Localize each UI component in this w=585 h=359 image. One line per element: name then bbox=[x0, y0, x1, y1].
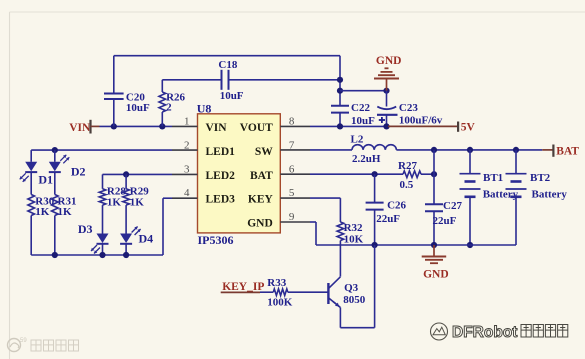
node BT1 top junction bbox=[467, 147, 473, 153]
port 5V bbox=[458, 122, 475, 134]
wire 5V red segment bbox=[388, 125, 458, 127]
node C23 bottom junction bbox=[383, 123, 389, 129]
LED D1 bbox=[20, 150, 53, 194]
wire LED2 net bbox=[103, 173, 173, 175]
svg-text:10uF: 10uF bbox=[220, 90, 244, 102]
svg-text:10uF: 10uF bbox=[351, 115, 375, 127]
svg-text:1K: 1K bbox=[58, 206, 73, 218]
wire VOUT net bbox=[310, 125, 388, 127]
svg-text:R32: R32 bbox=[344, 222, 363, 234]
wire C20-top to C22-top bbox=[114, 55, 340, 57]
svg-text:1K: 1K bbox=[130, 197, 145, 209]
svg-text:KEY: KEY bbox=[248, 194, 274, 206]
svg-text:59: 59 bbox=[20, 338, 27, 344]
node C22 bottom junction bbox=[337, 123, 343, 129]
svg-text:1K: 1K bbox=[107, 197, 122, 209]
node BAT-R27 junction bbox=[431, 147, 437, 153]
resistor R30 bbox=[28, 195, 55, 256]
capacitor C20 bbox=[104, 56, 150, 127]
wire LED1 net bbox=[31, 149, 172, 151]
svg-text:C26: C26 bbox=[387, 200, 406, 212]
svg-text:GND: GND bbox=[247, 218, 273, 230]
svg-text:2: 2 bbox=[166, 102, 172, 114]
wire GND pin9 bbox=[310, 222, 316, 245]
wire GND tie bbox=[340, 90, 387, 92]
svg-text:22uF: 22uF bbox=[376, 213, 400, 225]
svg-text:R29: R29 bbox=[130, 185, 149, 197]
svg-text:L2: L2 bbox=[351, 134, 364, 146]
svg-text:KEY_IP: KEY_IP bbox=[222, 281, 264, 293]
wire GND vertical x340 bbox=[339, 56, 341, 106]
svg-text:22uF: 22uF bbox=[433, 215, 457, 227]
node C26-emitter junction bbox=[372, 242, 378, 248]
capacitor C18 bbox=[218, 59, 243, 102]
svg-text:VIN: VIN bbox=[206, 122, 228, 134]
svg-text:GND: GND bbox=[376, 55, 402, 67]
svg-text:D1: D1 bbox=[38, 172, 53, 186]
wire LED3 bottom rail bbox=[31, 254, 163, 256]
svg-text:2.2uH: 2.2uH bbox=[352, 153, 381, 165]
transistor Q3 bbox=[328, 277, 365, 308]
svg-text:R33: R33 bbox=[267, 277, 286, 289]
wire R26-top to C18 bbox=[162, 79, 221, 81]
svg-text:1K: 1K bbox=[35, 206, 50, 218]
wire Q3 emitter return bbox=[340, 245, 374, 328]
battery BT2 bbox=[506, 150, 568, 245]
op-amp U8 IP5306 body bbox=[197, 101, 281, 247]
svg-text:D2: D2 bbox=[71, 165, 86, 179]
capacitor C26 bbox=[366, 174, 407, 245]
svg-text:DFRobot: DFRobot bbox=[452, 324, 517, 341]
node GND-tie junction bbox=[337, 88, 343, 94]
svg-text:VOUT: VOUT bbox=[240, 122, 273, 134]
port VIN bbox=[69, 120, 99, 134]
port BAT bbox=[542, 145, 579, 158]
wire R32 to Q3 collector bbox=[339, 241, 341, 277]
node VIN-R26 junction bbox=[159, 123, 165, 129]
resistor R26 bbox=[159, 80, 186, 127]
U8 pin numbers bbox=[184, 116, 295, 224]
wire BAT sense bbox=[310, 173, 403, 175]
svg-text:BAT: BAT bbox=[250, 170, 273, 182]
wire SW to L2 bbox=[310, 149, 352, 151]
resistor R33 bbox=[267, 277, 293, 309]
wire L2 to BAT rail bbox=[396, 149, 434, 151]
node C26 top junction bbox=[372, 171, 378, 177]
resistor R28 bbox=[99, 174, 126, 233]
svg-text:LED1: LED1 bbox=[206, 146, 236, 158]
wire VIN net bbox=[100, 125, 173, 127]
node D2 bottom junction bbox=[52, 252, 58, 258]
svg-text:R27: R27 bbox=[398, 160, 417, 172]
svg-text:C27: C27 bbox=[443, 200, 462, 212]
node C18 junction bbox=[337, 77, 343, 83]
LED D2 bbox=[49, 150, 86, 194]
resistor R27 bbox=[398, 160, 421, 191]
wire R27 to vert bbox=[421, 173, 434, 175]
wire LED3 riser bbox=[163, 198, 172, 255]
node C27-GND junction bbox=[431, 242, 437, 248]
svg-text:8050: 8050 bbox=[343, 294, 366, 306]
node D4 bottom junction bbox=[123, 252, 129, 258]
svg-text:SW: SW bbox=[255, 146, 273, 158]
wire KEY net bbox=[310, 198, 340, 222]
svg-text:Battery: Battery bbox=[483, 189, 519, 201]
wire BAT rail bbox=[434, 149, 542, 151]
LED D4 bbox=[120, 227, 153, 256]
svg-text:0.5: 0.5 bbox=[400, 179, 414, 191]
svg-text:D3: D3 bbox=[78, 222, 93, 236]
U8 pin names bbox=[206, 122, 274, 230]
svg-text:VIN: VIN bbox=[69, 122, 91, 134]
capacitor C22 bbox=[331, 102, 375, 127]
node GND-C23 junction bbox=[383, 88, 389, 94]
wire R33 to Q3 base bbox=[288, 291, 328, 293]
node D2 top junction bbox=[52, 147, 58, 153]
svg-text:U8: U8 bbox=[197, 101, 212, 115]
power port GND bottom bbox=[422, 245, 449, 280]
capacitor C23 bbox=[377, 91, 443, 127]
svg-text:BT1: BT1 bbox=[483, 172, 503, 184]
watermark bottom-left bbox=[8, 338, 79, 352]
wire KEY_IP to R33 bbox=[260, 291, 273, 293]
node R27-vert junction bbox=[431, 171, 437, 177]
resistor R29 bbox=[123, 174, 149, 233]
capacitor C27 bbox=[425, 200, 462, 245]
svg-text:LED2: LED2 bbox=[206, 170, 236, 182]
resistor R32 bbox=[337, 222, 364, 246]
svg-text:100K: 100K bbox=[267, 296, 293, 308]
svg-text:Q3: Q3 bbox=[344, 282, 359, 294]
U8 pin stubs bbox=[172, 126, 310, 222]
svg-text:Battery: Battery bbox=[532, 189, 568, 201]
wire BAT vert bbox=[433, 150, 435, 204]
svg-text:10K: 10K bbox=[344, 233, 364, 245]
svg-text:D4: D4 bbox=[139, 232, 154, 246]
svg-text:100uF/6v: 100uF/6v bbox=[399, 114, 443, 126]
svg-text:LED3: LED3 bbox=[206, 194, 236, 206]
inductor L2 bbox=[351, 134, 397, 165]
wire C18 to GND-net vertical bbox=[229, 79, 341, 81]
svg-text:IP5306: IP5306 bbox=[198, 233, 234, 247]
node R29 top junction bbox=[123, 171, 129, 177]
power port GND top bbox=[374, 55, 401, 91]
svg-text:BAT: BAT bbox=[556, 145, 579, 157]
svg-text:GND: GND bbox=[423, 268, 449, 280]
svg-text:3: 3 bbox=[184, 163, 190, 175]
svg-text:10uF: 10uF bbox=[126, 102, 150, 114]
svg-text:C18: C18 bbox=[218, 59, 237, 71]
LED D3 bbox=[78, 222, 109, 255]
node BT1 bottom junction bbox=[467, 242, 473, 248]
svg-text:C22: C22 bbox=[351, 102, 370, 114]
svg-text:BT2: BT2 bbox=[530, 172, 551, 184]
node BT2 top junction bbox=[513, 147, 519, 153]
wire GND rail bbox=[316, 244, 516, 246]
node VIN-C20 junction bbox=[111, 123, 117, 129]
svg-text:5V: 5V bbox=[461, 122, 476, 134]
resistor R31 bbox=[52, 195, 77, 256]
watermark DFRobot bbox=[431, 323, 568, 341]
svg-text:C23: C23 bbox=[399, 102, 418, 114]
battery BT1 bbox=[460, 150, 519, 245]
node D3 bottom junction bbox=[99, 252, 105, 258]
port KEY_IP bbox=[221, 281, 265, 293]
